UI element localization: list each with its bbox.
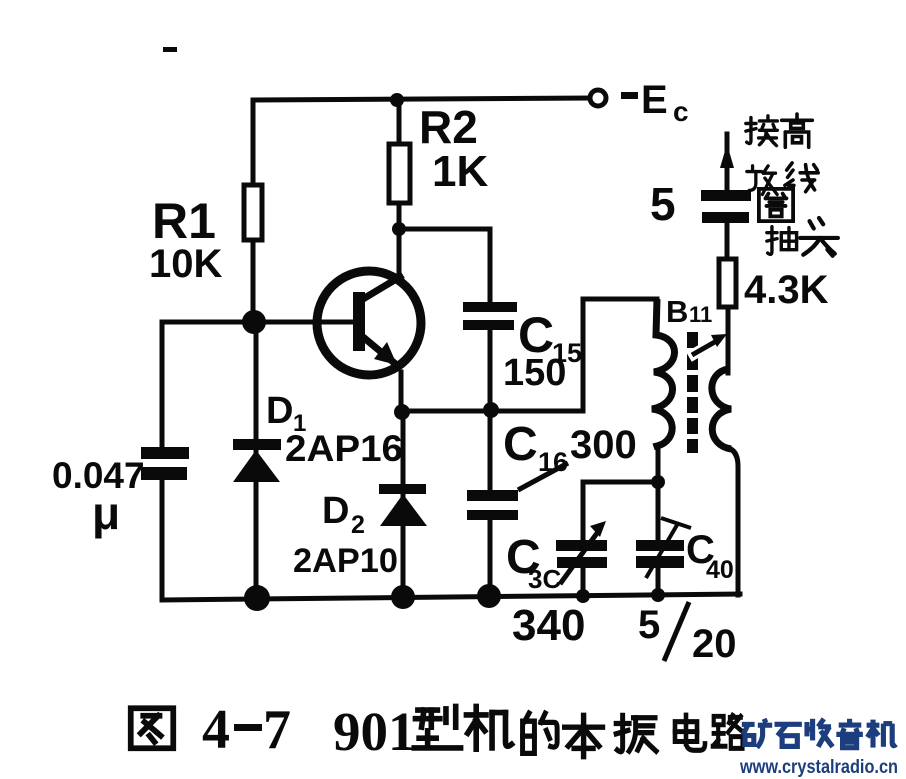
diode D1 cathode bar — [233, 439, 281, 450]
capacitor C16 plates — [467, 490, 518, 520]
inductor B11 adjustable arrow — [689, 337, 723, 357]
svg-text:300: 300 — [570, 423, 637, 467]
watermark character kuang — [742, 719, 772, 748]
wire R2 to C15 horizontal — [399, 227, 490, 232]
svg-text:D: D — [322, 490, 349, 532]
svg-text:R1: R1 — [152, 193, 216, 249]
wire base horizontal — [162, 320, 355, 325]
wire left branch upper — [160, 322, 165, 449]
wire C40 lower — [656, 566, 661, 595]
svg-text:901: 901 — [333, 701, 416, 762]
svg-text:7: 7 — [263, 699, 291, 761]
watermark character yin — [836, 719, 863, 748]
wire collector vertical — [397, 100, 402, 276]
transistor Q1 base bar — [353, 292, 365, 351]
svg-text:c: c — [673, 96, 689, 127]
transistor Q1 emitter arrowhead — [374, 342, 397, 365]
node coil bottom junction — [651, 475, 665, 489]
watermark character shi — [775, 724, 802, 746]
resistor R1 body — [244, 185, 262, 240]
resistor R2 body — [389, 144, 410, 203]
wire to B11 horizontal — [583, 297, 657, 302]
trimmer C40 T mark — [646, 525, 677, 578]
wire C16 branch — [488, 411, 493, 492]
svg-text:D: D — [266, 390, 293, 432]
wire tank top horizontal — [583, 480, 658, 485]
annotation quan — [759, 189, 793, 221]
caption character zhen — [616, 715, 656, 751]
caption character xing — [414, 706, 460, 747]
capacitor 5 plates — [701, 190, 751, 223]
wire resistor to right coil — [726, 306, 731, 373]
label C16 pointer slash — [518, 463, 568, 490]
wire B11 left coil bottom — [656, 449, 661, 482]
wire to B11 vertical — [581, 299, 586, 411]
wire C40 upper — [656, 482, 661, 542]
node base junction — [242, 310, 266, 334]
svg-text:2AP16: 2AP16 — [285, 428, 403, 469]
annotation chou — [767, 227, 797, 255]
wire emitter vertical — [399, 372, 404, 411]
wire R1 top — [251, 100, 256, 188]
svg-text:5: 5 — [650, 178, 676, 230]
caption character dian — [675, 715, 705, 750]
node R2 bottom junction — [392, 222, 406, 236]
node bottom rail C16 — [477, 584, 501, 608]
label -Ec — [621, 92, 638, 99]
svg-text:2: 2 — [351, 511, 365, 539]
svg-text:3C: 3C — [528, 564, 561, 594]
annotation xian — [785, 163, 818, 192]
terminal -Ec — [590, 90, 606, 106]
wire C3C upper — [581, 482, 586, 542]
wire C15 top vertical — [488, 229, 493, 305]
svg-text:E: E — [641, 78, 668, 122]
capacitor 0.047u plates — [141, 447, 189, 480]
svg-text:www.crystalradio.cn: www.crystalradio.cn — [739, 757, 898, 778]
svg-text:150: 150 — [503, 352, 566, 394]
caption character ji — [466, 706, 511, 749]
capacitor C3C plates — [556, 540, 607, 568]
capacitor C40 plates — [636, 540, 684, 568]
node C15 bottom junction — [483, 402, 499, 418]
watermark character ji2 — [867, 720, 897, 748]
svg-text:μ: μ — [92, 487, 120, 539]
caption character ben — [565, 715, 603, 756]
svg-text:2AP10: 2AP10 — [293, 542, 398, 580]
transistor Q1 emitter stroke — [363, 337, 398, 366]
node bottom rail C40 — [651, 588, 665, 602]
annotation fang — [747, 166, 777, 195]
node emitter junction — [394, 404, 410, 420]
antenna arrow head — [720, 144, 734, 168]
svg-text:4.3K: 4.3K — [744, 268, 829, 312]
svg-text:5: 5 — [638, 603, 660, 647]
caption character de — [523, 713, 558, 753]
wire left branch lower — [160, 478, 165, 598]
node bottom rail D2 — [391, 585, 415, 609]
svg-text:R2: R2 — [419, 101, 478, 153]
transistor Q1 circle — [317, 271, 421, 375]
wire D2 branch — [401, 411, 406, 598]
node bottom rail C3C — [576, 589, 590, 603]
wire arrow stem top right — [725, 134, 730, 192]
wire C3C lower — [581, 566, 586, 596]
svg-text:20: 20 — [692, 622, 737, 666]
wire emitter node horizontal — [401, 409, 583, 414]
wire cap5 to resistor — [725, 222, 730, 260]
inductor B11 core dashes — [687, 332, 698, 453]
watermark character shou — [807, 719, 833, 747]
annotation gao — [782, 114, 813, 147]
svg-text:4: 4 — [202, 699, 230, 761]
capacitor C15 plates — [463, 302, 517, 330]
diode D2 cathode bar — [379, 484, 426, 494]
transistor Q1 collector stroke — [363, 275, 403, 299]
caption character tu (figure) — [131, 708, 174, 748]
annotation jie — [746, 116, 777, 146]
caption character lu — [713, 715, 744, 748]
svg-text:340: 340 — [512, 601, 585, 650]
wire C15 bottom vertical — [488, 329, 493, 411]
resistor 4.3K body — [719, 259, 736, 307]
wire C16 lower — [488, 519, 493, 596]
wire R1 bottom — [251, 238, 256, 322]
annotation tou — [800, 218, 838, 256]
diode D1 triangle — [233, 450, 280, 482]
stray mark top left — [163, 47, 177, 52]
svg-text:11: 11 — [689, 302, 712, 327]
svg-text:C: C — [503, 418, 538, 471]
inductor B11 left coil — [652, 299, 675, 449]
diode D2 triangle — [380, 494, 427, 526]
svg-text:B: B — [666, 294, 688, 329]
inductor B11 right coil — [712, 369, 731, 449]
wire D1 branch — [254, 322, 259, 598]
wire top rail — [253, 98, 591, 100]
wire bottom rail — [162, 594, 740, 600]
wire right coil bottom to rail — [731, 449, 738, 595]
variable capacitor C3C arrow — [560, 529, 600, 584]
svg-text:10K: 10K — [149, 242, 222, 286]
svg-text:40: 40 — [706, 556, 734, 584]
svg-text:1K: 1K — [432, 147, 488, 196]
node bottom rail D1 — [244, 585, 270, 611]
node top rail junction — [390, 93, 404, 107]
